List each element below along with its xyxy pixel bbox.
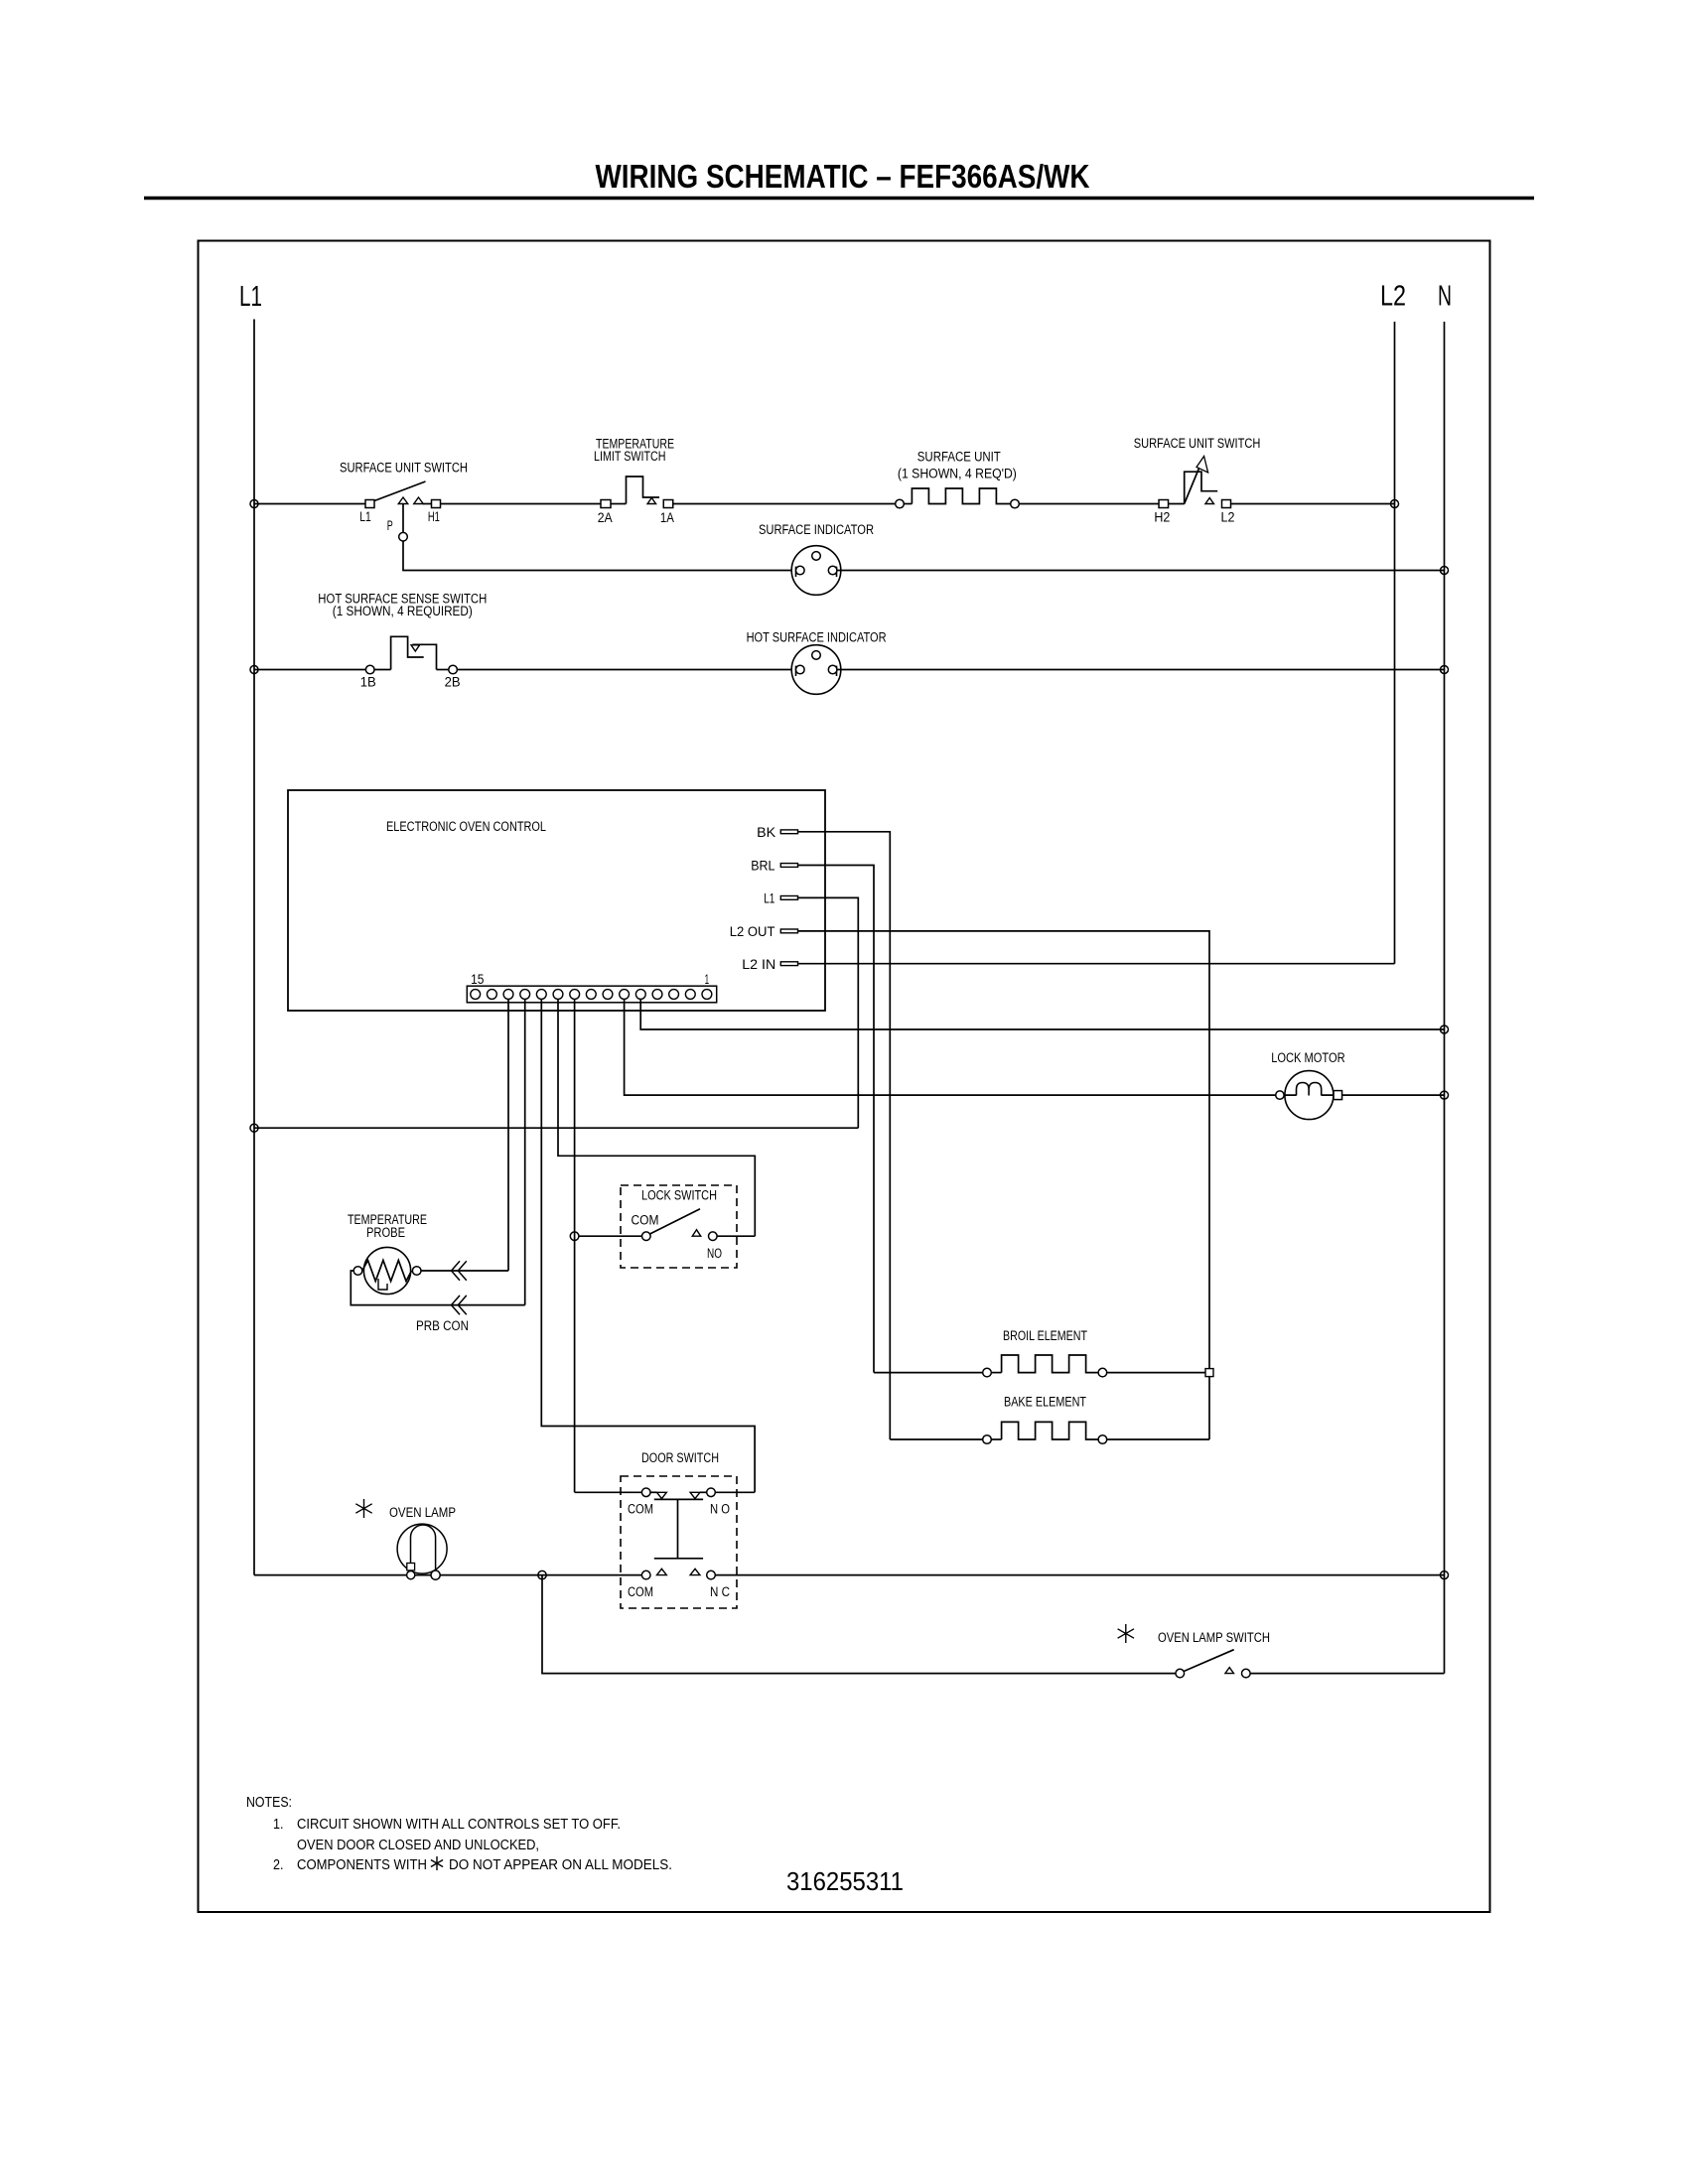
svg-text:L1: L1 [239,281,262,313]
surface unit element terminal left [896,499,905,508]
oven lamp switch blade [1185,1650,1234,1672]
svg-text:L1: L1 [359,509,371,524]
lock switch COM terminal [642,1232,651,1241]
surface unit switch S1 blade [374,481,426,501]
temperature limit switch terminal 1A [663,500,673,508]
connector pin 11 [536,990,546,1000]
broil element heating coil [991,1372,1001,1374]
svg-text:PRB CON: PRB CON [416,1318,469,1333]
wire: L2 bus vertical [1394,322,1396,964]
svg-text:COM: COM [628,1584,653,1599]
broil element terminal right [1098,1368,1107,1377]
lock motor winding [1297,1083,1322,1096]
svg-text:LOCK MOTOR: LOCK MOTOR [1271,1050,1345,1065]
oven lamp switch asterisk [1118,1624,1134,1643]
wire: L2 OUT pin to elements column [798,931,1210,1439]
hot surface sense switch terminal 2B [449,665,458,674]
connector pin 1 [702,990,712,1000]
connector pin 7 [603,990,613,1000]
wire: upper NO to triangle [700,1491,707,1493]
lock switch contact triangle [692,1230,701,1237]
svg-text:COM: COM [628,1502,653,1517]
wire: L1 pin down to L1 feed row [798,897,859,1128]
wire: lock motor to N bus [1342,1094,1445,1096]
wire: row1 L1 to surface unit switch [254,503,365,505]
svg-text:2A: 2A [598,510,613,525]
svg-text:COMPONENTS WITH: COMPONENTS WITH [297,1857,427,1873]
surface unit switch S2 arrowhead [1196,457,1208,474]
temperature probe hook [378,1279,387,1290]
svg-text:H1: H1 [428,509,440,524]
svg-text:BAKE ELEMENT: BAKE ELEMENT [1004,1395,1086,1410]
node: L1 bus / row1 [250,500,258,508]
svg-text:NO: NO [707,1246,722,1261]
oven lamp switch terminal right [1242,1669,1251,1678]
wire: H1 to temperature limit switch [441,503,602,505]
node: N bus / pin5 wire [1441,1025,1449,1033]
temperature limit switch body [627,477,660,504]
wire: triangle to H1 [423,503,432,505]
lock switch NO terminal [709,1232,718,1241]
node: N bus / row2 [1441,666,1449,674]
surface unit switch S1 terminal L1 [365,500,374,508]
temperature probe terminal left [353,1267,362,1276]
wire: pin13 to temperature probe (upper) [507,999,509,1271]
svg-text:WIRING SCHEMATIC – FEF366AS/WK: WIRING SCHEMATIC – FEF366AS/WK [596,158,1090,195]
node: pin9 wire / lock switch COM [570,1232,579,1241]
hot surface sense switch body [391,636,424,669]
bake element terminal left [983,1435,992,1444]
wire: pin9 column to door switch upper COM [575,1491,642,1493]
svg-text:2B: 2B [445,675,461,690]
svg-text:(1 SHOWN, 4 REQUIRED): (1 SHOWN, 4 REQUIRED) [333,604,473,618]
wire: lock motor internal stubs [1284,1094,1334,1096]
hot surface sense switch contact triangle [411,645,420,651]
oven lamp asterisk [355,1499,371,1518]
temperature limit switch contact triangle [647,498,656,504]
wire: H2 to switch body [1169,503,1185,505]
wire: 2B to hot surface indicator [457,669,795,671]
wire: 2A to limit switch body [611,503,627,505]
door switch upper contact triangle left [657,1492,667,1498]
surface unit switch S2 terminal H2 [1159,500,1169,508]
surface unit heating element [904,503,912,505]
door switch upper COM terminal [641,1488,650,1497]
oven lamp terminal left [407,1571,415,1579]
connector pin 3 [669,990,679,1000]
svg-text:CIRCUIT SHOWN WITH ALL CONTROL: CIRCUIT SHOWN WITH ALL CONTROLS SET TO O… [297,1817,621,1833]
wire: BK column to bake element [890,1438,982,1440]
svg-text:PROBE: PROBE [366,1225,405,1240]
hot surface sense switch terminal 1B [365,665,374,674]
EOC connector strip [467,986,716,1003]
svg-text:L2 OUT: L2 OUT [730,924,775,939]
svg-text:SURFACE UNIT: SURFACE UNIT [917,449,1001,464]
svg-text:316255311: 316255311 [786,1868,904,1896]
wire: bake element to L2 OUT column [1107,1438,1209,1440]
svg-text:H2: H2 [1154,509,1170,524]
svg-text:DO NOT APPEAR ON ALL MODELS.: DO NOT APPEAR ON ALL MODELS. [449,1857,672,1873]
surface indicator lamp [791,546,841,596]
svg-text:1B: 1B [360,675,376,690]
title rule [144,197,1534,201]
svg-text:2.: 2. [273,1857,284,1873]
svg-text:BRL: BRL [751,859,775,874]
surface unit switch S2 terminal L2 [1222,500,1231,508]
surface unit switch S1 contact triangle [414,497,424,504]
svg-text:COM: COM [632,1213,659,1228]
lock motor terminal right [1334,1091,1342,1100]
wire: N bus vertical [1444,322,1446,1674]
wire: junction down to oven lamp switch row [542,1575,1176,1674]
svg-text:ELECTRONIC OVEN CONTROL: ELECTRONIC OVEN CONTROL [386,819,546,834]
EOC pin lug BK [780,830,797,834]
wire: BRL pin to broil element [798,866,875,1373]
wire: pin12 to temperature probe (lower) [524,999,526,1304]
wire: 1A to surface unit [673,503,896,505]
svg-text:OVEN LAMP: OVEN LAMP [389,1505,456,1520]
svg-text:HOT SURFACE INDICATOR: HOT SURFACE INDICATOR [747,630,887,645]
wire: L2 terminal to L2 bus [1231,503,1395,505]
svg-text:SURFACE INDICATOR: SURFACE INDICATOR [759,522,874,537]
terminal P circle [399,532,408,541]
wire: L2 IN pin to L2 bus [798,963,1395,965]
wire: lock switch NO to pin10 column [717,1235,755,1237]
wire: P to surface indicator row [403,541,796,571]
door switch upper NO terminal [707,1488,716,1497]
wire: pin6 to lock motor [625,999,1276,1095]
hot surface indicator lamp [791,645,841,695]
node: L1 bus / row2 [250,666,258,674]
connector pin 2 [685,990,695,1000]
svg-text:OVEN DOOR CLOSED AND UNLOCKED,: OVEN DOOR CLOSED AND UNLOCKED, [297,1838,539,1853]
wire: BRL column to broil element [874,1372,983,1374]
door switch upper contact triangle right [690,1492,700,1498]
oven lamp switch contact triangle [1225,1668,1234,1674]
wire: pin9 drop to lock switch COM and door switch COM [574,999,576,1492]
door switch lower NC terminal [707,1570,716,1579]
lock motor terminal left [1276,1091,1284,1099]
temperature limit switch terminal 2A [601,500,611,508]
connector pin 4 [652,990,662,1000]
wire: door switch NC row to N bus [715,1574,1444,1576]
door switch lower contact triangle right [690,1569,700,1574]
svg-text:BK: BK [757,825,775,840]
wire: upper NO to pin11 column [715,1491,755,1493]
door switch actuator bars [654,1499,703,1558]
wire: L1 bus vertical [253,320,255,1575]
connector pin 14 [488,990,497,1000]
wire: junction to lock switch COM [579,1235,642,1237]
wire: P branch down from pivot [402,504,404,533]
electronic oven control box U1 [288,790,825,1011]
svg-text:(1 SHOWN, 4 REQ'D): (1 SHOWN, 4 REQ'D) [898,466,1017,480]
connector pin 8 [586,990,596,1000]
svg-text:SURFACE UNIT SWITCH: SURFACE UNIT SWITCH [1134,436,1261,451]
wire: probe right to pin13 column with connector [421,1270,508,1272]
connector pin 12 [520,990,530,1000]
door switch lower contact triangle left [657,1569,667,1574]
oven lamp filament [411,1525,436,1571]
oven lamp bulb [397,1524,447,1573]
svg-text:SURFACE UNIT SWITCH: SURFACE UNIT SWITCH [340,460,468,475]
temperature probe body [363,1247,410,1294]
wire: pin11 drop to door switch NO [541,999,755,1492]
svg-text:DOOR SWITCH: DOOR SWITCH [641,1450,719,1465]
wire: oven lamp switch to N bus [1250,1673,1444,1675]
oven lamp switch terminal left [1176,1669,1185,1678]
svg-text:NOTES:: NOTES: [246,1795,292,1811]
svg-text:15: 15 [471,972,484,987]
bake element heating coil [991,1438,1001,1440]
lock switch box (dashed) [621,1185,737,1268]
svg-text:OVEN LAMP SWITCH: OVEN LAMP SWITCH [1158,1630,1270,1645]
svg-text:L2: L2 [1221,509,1235,524]
svg-text:L2: L2 [1380,281,1406,313]
wire: 1B to switch body [374,669,391,671]
probe connector chevrons upper [452,1261,461,1280]
wire: L1 bus corner to oven lamp [254,1574,641,1576]
wire: surface indicator to N bus [837,570,1445,572]
wire: surface unit to switch H2 [1019,503,1159,505]
wire: L1 bus feed to EOC L1 pin column [254,1127,858,1129]
svg-text:L2 IN: L2 IN [742,957,775,972]
svg-text:N: N [1438,281,1452,313]
node: N bus / surface indicator row [1441,567,1449,575]
connector pin 5 [635,990,645,1000]
surface unit switch S2 body bracket [1185,472,1218,503]
surface unit switch S1 pivot triangle P [398,497,408,504]
bake element terminal right [1098,1435,1107,1444]
svg-text:1A: 1A [660,510,674,525]
connector pin 10 [553,990,563,1000]
lock motor M1 [1285,1071,1334,1120]
EOC pin lug L2 IN [780,962,797,966]
oven lamp terminal right [431,1570,440,1579]
surface unit switch S1 terminal H1 [432,500,441,508]
svg-text:N C: N C [710,1584,730,1599]
svg-text:LIMIT SWITCH: LIMIT SWITCH [594,449,666,464]
surface unit switch S2 contact triangle [1205,498,1214,504]
node: L1 bus / EOC feed [250,1124,258,1132]
EOC pin lug BRL [780,864,797,868]
probe connector chevrons lower [452,1296,461,1314]
svg-text:1: 1 [705,972,710,987]
EOC pin lug L1 [780,896,797,900]
wire: probe left loop to pin12 column [351,1271,524,1305]
surface unit switch S2 blade with arrow [1185,459,1203,504]
node: L2 OUT column / broil (square) [1205,1369,1213,1377]
wire: pin10 drop to lock switch NO [558,999,755,1236]
node: L2 bus / row1 [1391,500,1399,508]
wire: BK pin to bake element (via right then down) [798,832,891,1439]
connector pin 13 [503,990,513,1000]
svg-text:N O: N O [710,1502,730,1517]
connector pin 6 [620,990,630,1000]
broil element terminal left [983,1368,992,1377]
svg-text:LOCK SWITCH: LOCK SWITCH [641,1188,717,1203]
connector pin 15 [471,990,481,1000]
door switch box (dashed) [621,1476,737,1608]
door switch lower COM terminal [641,1570,650,1579]
surface unit element terminal right [1011,499,1020,508]
oven lamp base square [407,1564,415,1570]
temperature probe terminal right [412,1267,421,1276]
svg-text:1.: 1. [273,1817,284,1833]
node: lamp row junction [538,1570,546,1578]
node: N bus / lock motor [1441,1091,1449,1099]
svg-text:BROIL ELEMENT: BROIL ELEMENT [1003,1328,1087,1343]
node: N bus / lamp-NC row [1441,1571,1449,1579]
hot surface sense switch fixed contact [412,644,436,669]
schematic border frame [199,241,1490,1913]
lock switch blade [650,1209,700,1234]
wire: L1 bus to 1B [254,669,365,671]
wire: upper COM to triangle [650,1491,657,1493]
wire: broil element to L2 OUT column [1107,1372,1209,1374]
temperature probe resistor zigzag [362,1261,412,1282]
connector pin 9 [570,990,580,1000]
wire: fixed contact to 2B [437,669,449,671]
svg-text:P: P [387,518,393,533]
wire: pin5 to N bus [640,999,1444,1029]
EOC pin lug L2 OUT [780,929,797,933]
svg-text:L1: L1 [764,891,774,906]
wire: hot surface indicator to N bus [837,669,1445,671]
